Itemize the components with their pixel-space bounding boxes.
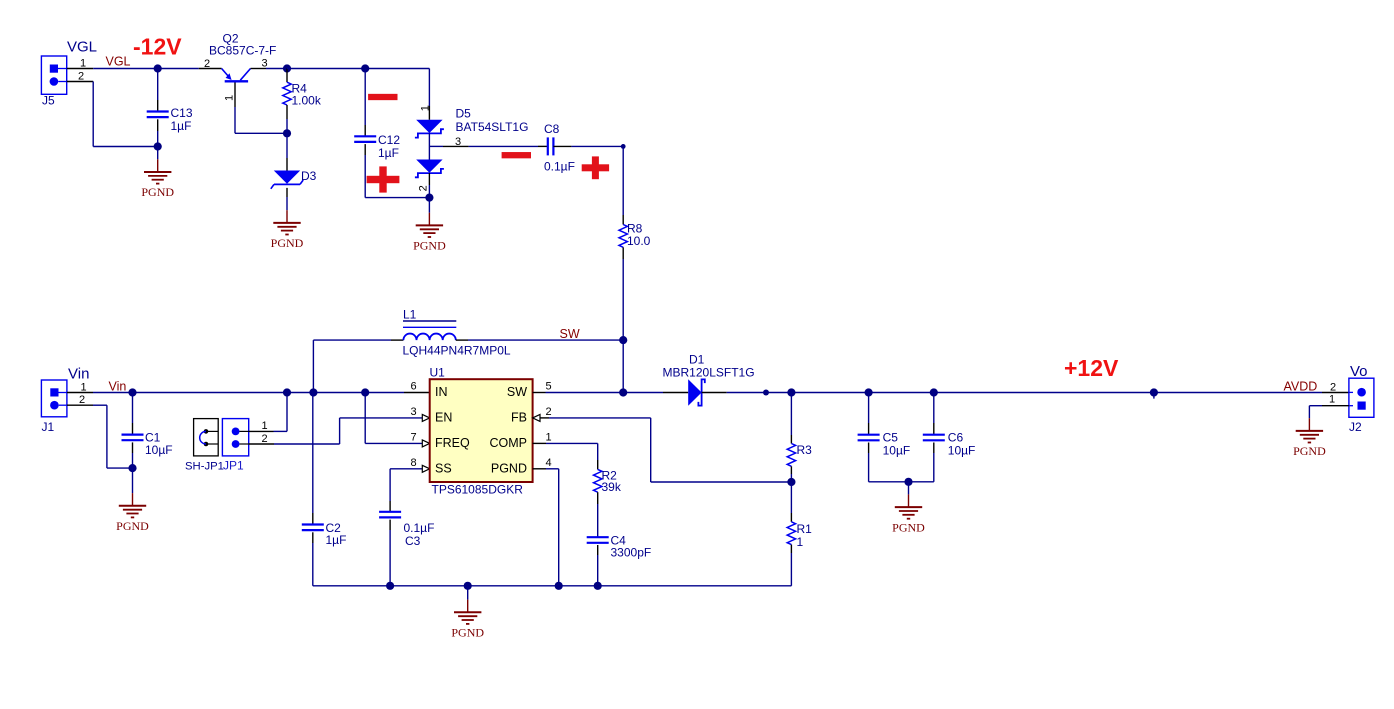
svg-text:1µF: 1µF (326, 533, 347, 547)
svg-text:PGND: PGND (141, 185, 174, 199)
svg-text:1: 1 (261, 420, 267, 432)
svg-text:BAT54SLT1G: BAT54SLT1G (456, 120, 529, 134)
svg-text:2: 2 (204, 58, 210, 70)
svg-text:U1: U1 (430, 366, 446, 380)
svg-text:1µF: 1µF (378, 146, 399, 160)
svg-text:L1: L1 (403, 308, 417, 322)
svg-text:EN: EN (435, 411, 452, 425)
svg-text:1µF: 1µF (171, 119, 192, 133)
svg-text:VGL: VGL (67, 39, 97, 56)
svg-text:2: 2 (79, 394, 85, 406)
svg-text:-12V: -12V (133, 34, 182, 60)
svg-text:IN: IN (435, 385, 448, 399)
svg-text:AVDD: AVDD (1284, 380, 1318, 394)
svg-text:J5: J5 (42, 94, 55, 108)
svg-text:2: 2 (545, 406, 551, 418)
svg-text:C13: C13 (171, 106, 193, 120)
svg-text:1: 1 (1329, 394, 1335, 406)
svg-text:1: 1 (80, 382, 86, 394)
svg-text:PGND: PGND (1293, 444, 1326, 458)
svg-text:PGND: PGND (271, 236, 304, 250)
svg-text:Vo: Vo (1350, 363, 1368, 380)
svg-text:2: 2 (417, 185, 429, 191)
svg-text:SW: SW (560, 327, 580, 341)
svg-text:10.0: 10.0 (627, 234, 651, 248)
svg-text:2: 2 (1330, 382, 1336, 394)
svg-text:BC857C-7-F: BC857C-7-F (209, 44, 276, 58)
svg-text:C6: C6 (948, 431, 964, 445)
svg-text:C5: C5 (883, 431, 899, 445)
svg-text:3: 3 (261, 58, 267, 70)
svg-text:1: 1 (545, 431, 551, 443)
svg-text:1: 1 (224, 95, 236, 101)
svg-text:+12V: +12V (1064, 355, 1119, 381)
svg-text:0.1µF: 0.1µF (544, 160, 575, 174)
svg-text:SS: SS (435, 462, 452, 476)
svg-text:J1: J1 (42, 420, 55, 434)
svg-text:1: 1 (797, 535, 804, 549)
svg-text:PGND: PGND (451, 626, 484, 640)
svg-text:Vin: Vin (109, 380, 127, 394)
svg-text:4: 4 (545, 457, 551, 469)
svg-text:COMP: COMP (490, 436, 528, 450)
svg-text:LQH44PN4R7MP0L: LQH44PN4R7MP0L (403, 344, 511, 358)
svg-text:D1: D1 (689, 353, 705, 367)
svg-text:PGND: PGND (892, 520, 925, 534)
svg-text:D5: D5 (456, 107, 472, 121)
svg-text:10µF: 10µF (883, 444, 911, 458)
svg-text:2: 2 (78, 71, 84, 83)
svg-text:FREQ: FREQ (435, 436, 470, 450)
svg-text:TPS61085DGKR: TPS61085DGKR (432, 483, 524, 497)
svg-text:R3: R3 (797, 443, 813, 457)
svg-text:0.1µF: 0.1µF (404, 521, 435, 535)
svg-text:3300pF: 3300pF (611, 546, 652, 560)
svg-text:2: 2 (261, 433, 267, 445)
svg-text:8: 8 (410, 457, 416, 469)
svg-text:3: 3 (410, 406, 416, 418)
svg-text:1.00k: 1.00k (292, 94, 322, 108)
svg-text:39k: 39k (602, 480, 622, 494)
svg-text:1: 1 (420, 105, 432, 111)
svg-text:C8: C8 (544, 122, 560, 136)
svg-text:MBR120LSFT1G: MBR120LSFT1G (663, 366, 755, 380)
svg-text:D3: D3 (301, 169, 317, 183)
svg-text:10µF: 10µF (948, 444, 976, 458)
svg-text:10µF: 10µF (145, 443, 173, 457)
svg-text:J2: J2 (1349, 420, 1362, 434)
svg-text:1: 1 (80, 58, 86, 70)
svg-text:VGL: VGL (106, 55, 131, 69)
svg-text:SH-JP1: SH-JP1 (185, 461, 224, 473)
svg-text:C3: C3 (405, 534, 421, 548)
svg-text:R1: R1 (797, 522, 813, 536)
svg-text:5: 5 (545, 381, 551, 393)
svg-text:C12: C12 (378, 133, 400, 147)
svg-text:JP1: JP1 (223, 459, 244, 473)
svg-text:PGND: PGND (413, 239, 446, 253)
svg-text:PGND: PGND (491, 462, 527, 476)
svg-text:SW: SW (507, 385, 527, 399)
svg-text:FB: FB (511, 411, 527, 425)
svg-text:Vin: Vin (68, 366, 89, 383)
svg-text:6: 6 (410, 381, 416, 393)
svg-text:7: 7 (410, 431, 416, 443)
svg-text:PGND: PGND (116, 519, 149, 533)
